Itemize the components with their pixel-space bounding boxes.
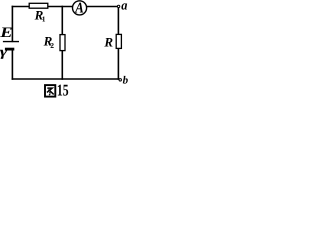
svg-text:γ: γ bbox=[0, 44, 8, 59]
svg-text:2: 2 bbox=[50, 41, 54, 50]
svg-text:R: R bbox=[103, 35, 113, 50]
svg-text:A: A bbox=[74, 1, 83, 17]
svg-text:b: b bbox=[123, 75, 129, 87]
svg-text:1: 1 bbox=[42, 14, 46, 23]
svg-text:15: 15 bbox=[57, 80, 69, 99]
svg-text:a: a bbox=[121, 0, 128, 12]
svg-text:E: E bbox=[0, 25, 13, 41]
